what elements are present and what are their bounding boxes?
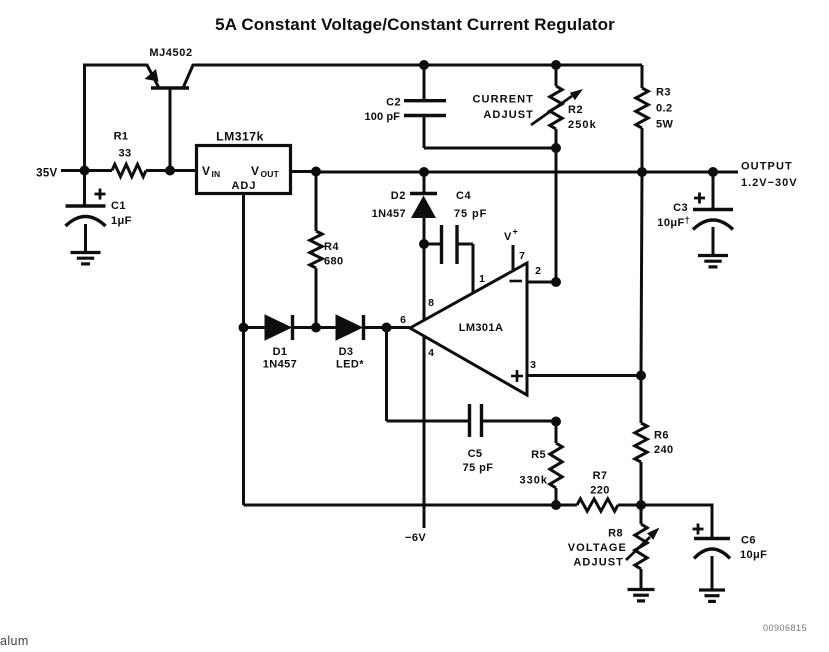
wire VOUT lead [291,170,317,173]
pin 7 lead [512,245,515,271]
resistor R3 [636,65,648,172]
junction R2 bottom node [551,143,561,153]
svg-text:100 pF: 100 pF [365,111,401,123]
wire VIN lead [170,169,197,172]
wire top rail main segment [194,64,643,67]
svg-text:V: V [251,164,259,178]
svg-text:R4: R4 [324,241,339,253]
resistor R7 [556,499,641,511]
svg-text:1N457: 1N457 [263,359,297,371]
svg-text:1: 1 [479,273,485,285]
junction R1-base node [165,166,175,176]
junction D2-C4-pin8 node [419,239,429,249]
regulator U2 LM317k box [197,146,291,194]
svg-text:C4: C4 [456,190,472,202]
svg-text:R3: R3 [656,87,671,99]
svg-text:75 pF: 75 pF [463,462,494,474]
potentiometer R2 [531,65,583,148]
svg-text:00906815: 00906815 [763,623,807,633]
junction pin6 node [382,323,392,333]
svg-text:ADJUST: ADJUST [573,557,624,569]
capacitor C3 [693,172,733,254]
junction pin3-R6 node [636,371,646,381]
svg-text:75 pF: 75 pF [454,208,487,220]
junction ADJ-D1 node [239,323,249,333]
junction R4-D1-D3 node [311,323,321,333]
diode D3 [316,315,387,340]
wire 35V stub [61,169,85,172]
svg-text:35V: 35V [36,168,57,180]
svg-text:R2: R2 [568,104,583,116]
potentiometer R8 [626,505,660,588]
pin 2 lead [527,281,556,284]
junction pin2 node [551,277,561,287]
wire R3 column down [641,172,642,376]
capacitor C1 [66,170,106,251]
wire output rail [316,171,738,174]
svg-text:5W: 5W [656,119,674,131]
ground C6 [699,588,725,591]
wire ADJ lead down [242,194,245,506]
svg-text:R1: R1 [114,131,129,143]
svg-text:680: 680 [324,256,344,268]
svg-text:D3: D3 [339,346,354,358]
wire ADJ bottom run [244,504,557,507]
pin 1 lead [472,244,475,293]
svg-text:8: 8 [428,297,434,309]
svg-text:C6: C6 [741,535,756,547]
svg-text:−6V: −6V [405,532,426,544]
op-amp plus input sign [511,375,523,378]
capacitor C2 [404,65,446,148]
svg-text:VOLTAGE: VOLTAGE [568,542,627,554]
wire C2 to R2 bottom [424,147,556,150]
pin 4 lead to -6V [423,335,426,528]
svg-text:CURRENT: CURRENT [473,94,534,106]
junction R2 top node [551,60,561,70]
junction R5 bottom node [551,500,561,510]
pin 8 lead [423,244,426,321]
svg-text:5A Constant Voltage/Constant C: 5A Constant Voltage/Constant Current Reg… [215,15,615,34]
pin 3 lead [527,374,641,377]
resistor R5 [550,422,562,506]
transistor Q1 MJ4502 [145,64,194,170]
wire pin6 node down [385,328,388,422]
svg-text:R8: R8 [608,528,623,540]
capacitor C4 [424,225,473,264]
svg-text:R6: R6 [654,430,669,442]
svg-text:3: 3 [530,359,536,371]
junction D2 node [419,167,429,177]
svg-text:OUT: OUT [261,169,280,179]
wire R2 bottom to pin2 [555,148,558,282]
resistor R1 [85,164,170,176]
svg-text:33: 33 [118,148,131,160]
svg-text:LED*: LED* [336,359,364,371]
svg-text:10μF: 10μF [740,549,767,561]
junction R3 output node [637,167,647,177]
svg-text:C1: C1 [111,200,126,212]
svg-text:V: V [504,231,512,243]
junction C2 top node [419,60,429,70]
capacitor C6 [693,524,731,590]
diode D2 [410,172,437,244]
svg-text:C5: C5 [468,448,483,460]
svg-text:alum: alum [0,634,29,648]
svg-text:1μF: 1μF [111,215,132,227]
svg-text:C2: C2 [386,97,401,109]
svg-text:IN: IN [212,169,221,179]
svg-text:V: V [202,164,210,178]
svg-text:D1: D1 [273,346,288,358]
svg-text:1N457: 1N457 [372,208,406,220]
ground R8 [628,588,655,591]
svg-text:7: 7 [519,250,525,262]
resistor R4 [310,172,322,328]
svg-text:ADJ: ADJ [231,180,256,192]
svg-text:220: 220 [590,485,610,497]
svg-text:D2: D2 [391,190,406,202]
svg-text:250k: 250k [568,119,597,131]
svg-text:4: 4 [428,347,434,359]
svg-text:R7: R7 [593,470,608,482]
svg-text:6: 6 [400,314,406,326]
op-amp U1 LM301A [410,263,527,395]
junction C5-R5 node [551,417,561,427]
pin 6 lead [387,326,411,329]
op-amp minus input sign [510,280,523,283]
svg-text:C3: C3 [673,202,688,214]
svg-text:330k: 330k [520,475,548,487]
junction 35V node [80,166,90,176]
junction VOUT node [311,167,321,177]
diode D1 [244,315,317,340]
svg-text:0.2: 0.2 [656,103,673,115]
svg-text:1.2V−30V: 1.2V−30V [741,177,798,189]
ground C3 [698,254,728,257]
capacitor C5 [387,404,557,437]
wire top rail left segment [85,65,147,170]
svg-text:ADJUST: ADJUST [483,109,534,121]
svg-text:240: 240 [654,444,674,456]
svg-text:OUTPUT: OUTPUT [741,161,793,173]
svg-text:R5: R5 [531,449,546,461]
wire R8 node to C6 [641,505,712,539]
svg-text:LM301A: LM301A [459,322,504,334]
ground C1 [71,251,101,254]
svg-text:+: + [513,227,518,237]
svg-text:MJ4502: MJ4502 [149,47,192,59]
resistor R6 [635,376,647,506]
svg-text:2: 2 [535,265,541,277]
svg-text:LM317k: LM317k [216,130,264,144]
junction C3 node [708,167,718,177]
junction R6-R7-R8 node [636,500,646,510]
